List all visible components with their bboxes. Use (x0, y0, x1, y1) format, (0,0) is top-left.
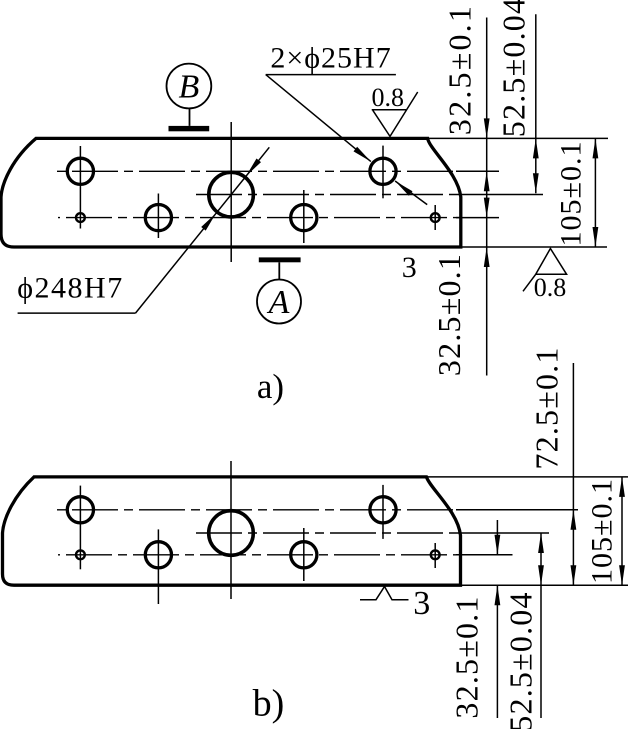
hole center b (209, 511, 254, 556)
centerline bottom row b (58, 554, 513, 556)
centerline center hole horizontal a (192, 194, 543, 196)
small hole bottom-right b (431, 550, 440, 559)
centerline hole3 vertical b (303, 528, 305, 581)
centerline bottom row a (58, 217, 499, 219)
svg-text:3: 3 (402, 251, 417, 284)
chamfer label 3 a (402, 251, 417, 284)
svg-text:52.5±0.04: 52.5±0.04 (496, 0, 532, 137)
svg-text:0.8: 0.8 (371, 83, 404, 112)
hole center a (phi248) (209, 172, 254, 217)
dimension text 32.5±0.1 bottom a (431, 253, 467, 376)
centerline small right hole vertical b (434, 543, 436, 568)
svg-text:32.5±0.1: 32.5±0.1 (449, 595, 485, 718)
svg-text:b): b) (253, 683, 285, 725)
datum B symbol (167, 64, 212, 132)
dimension text 105±0.1 b (586, 478, 619, 584)
dimension text 52.5±0.04 a (496, 0, 532, 137)
dimension 52.5 line a (x=535.8) (533, 14, 539, 193)
svg-text:3: 3 (413, 585, 430, 622)
dimension 32.5 line a (x=486.7) (484, 18, 490, 376)
extension line bottom edge b (461, 584, 629, 586)
dimension 52.5 line b (x=541) (538, 533, 544, 718)
dimension text 32.5±0.1 top a (442, 4, 478, 135)
hole bottom mid a (145, 205, 171, 231)
hole top-left b (67, 497, 93, 523)
small hole bottom-right a (431, 213, 440, 222)
centerline left holes vertical a (79, 146, 81, 229)
hole top-left a (67, 158, 93, 184)
centerline top row b (54, 509, 578, 511)
svg-text:2×ϕ25H7: 2×ϕ25H7 (270, 42, 391, 75)
label b) (253, 683, 285, 725)
svg-text:32.5±0.1: 32.5±0.1 (442, 4, 478, 135)
dimension 105 line b (x=622) (619, 477, 625, 585)
centerline top row a (54, 170, 499, 172)
hole top-right a (phi25) (370, 158, 396, 184)
small hole bottom-left b (76, 550, 85, 559)
small hole bottom-left a (76, 213, 85, 222)
surface finish symbol bottom a (523, 249, 567, 303)
dimension 32.5 line b (x=497.4) (495, 520, 501, 718)
svg-text:105±0.1: 105±0.1 (586, 478, 619, 584)
svg-text:72.5±0.1: 72.5±0.1 (529, 346, 565, 469)
extension line bottom edge a (461, 246, 607, 248)
label phi248H7 with leader (17, 147, 269, 313)
hole bottom third b (291, 542, 317, 568)
centerline small right hole vertical a (434, 205, 436, 230)
hole top-right b (370, 497, 396, 523)
plate outline b (3, 477, 461, 585)
chamfer squiggle and label 3 b (360, 585, 430, 622)
hole bottom mid b (145, 542, 171, 568)
surface finish symbol top a (371, 83, 417, 136)
svg-text:a): a) (257, 367, 284, 406)
dimension text 72.5±0.1 b (529, 346, 565, 469)
centerline center vertical b (230, 461, 232, 599)
centerline center hole horizontal b (192, 532, 549, 534)
label a) (257, 367, 284, 406)
dimension 72.5 line b (x=573.4) (571, 363, 577, 585)
svg-text:ϕ248H7: ϕ248H7 (17, 272, 123, 305)
extension line top edge b (427, 476, 628, 478)
svg-text:A: A (267, 284, 290, 321)
centerline mid-bottom hole vertical b (157, 529, 159, 604)
datum A symbol (257, 257, 301, 323)
dimension text 105±0.1 a (555, 141, 588, 247)
centerline mid-bottom hole vertical a (157, 194, 159, 239)
svg-text:52.5±0.04: 52.5±0.04 (503, 591, 539, 729)
dimension 105 line a (x=595.4) (593, 138, 599, 247)
dimension text 52.5±0.04 b (503, 591, 539, 729)
svg-text:B: B (179, 69, 200, 106)
label 2x phi25H7 with leader (266, 42, 428, 205)
svg-text:105±0.1: 105±0.1 (555, 141, 588, 247)
dimension text 32.5±0.1 b (449, 595, 485, 718)
svg-text:32.5±0.1: 32.5±0.1 (431, 253, 467, 376)
centerline center vertical a (230, 122, 232, 262)
centerline left holes vertical b (79, 486, 81, 570)
centerline hole3 vertical a (303, 190, 305, 243)
plate outline a (1, 138, 461, 247)
centerline top-right hole vertical a (382, 146, 384, 199)
hole bottom third a (291, 205, 317, 231)
centerline top-right hole vertical b (382, 485, 384, 539)
extension line top edge a (427, 137, 608, 139)
svg-text:0.8: 0.8 (534, 273, 567, 302)
